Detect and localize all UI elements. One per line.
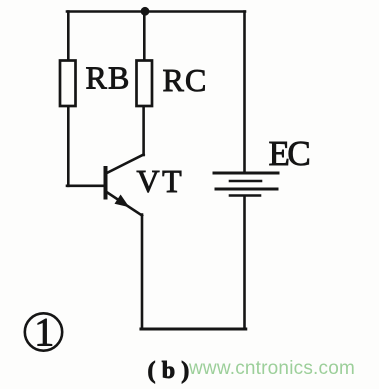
svg-text:VT: VT	[137, 163, 185, 199]
svg-text:EC: EC	[269, 134, 310, 173]
svg-text:1: 1	[34, 310, 54, 355]
svg-text:RC: RC	[163, 62, 208, 98]
svg-text:RB: RB	[86, 60, 131, 96]
svg-text:www.cntronics.com: www.cntronics.com	[188, 358, 355, 379]
